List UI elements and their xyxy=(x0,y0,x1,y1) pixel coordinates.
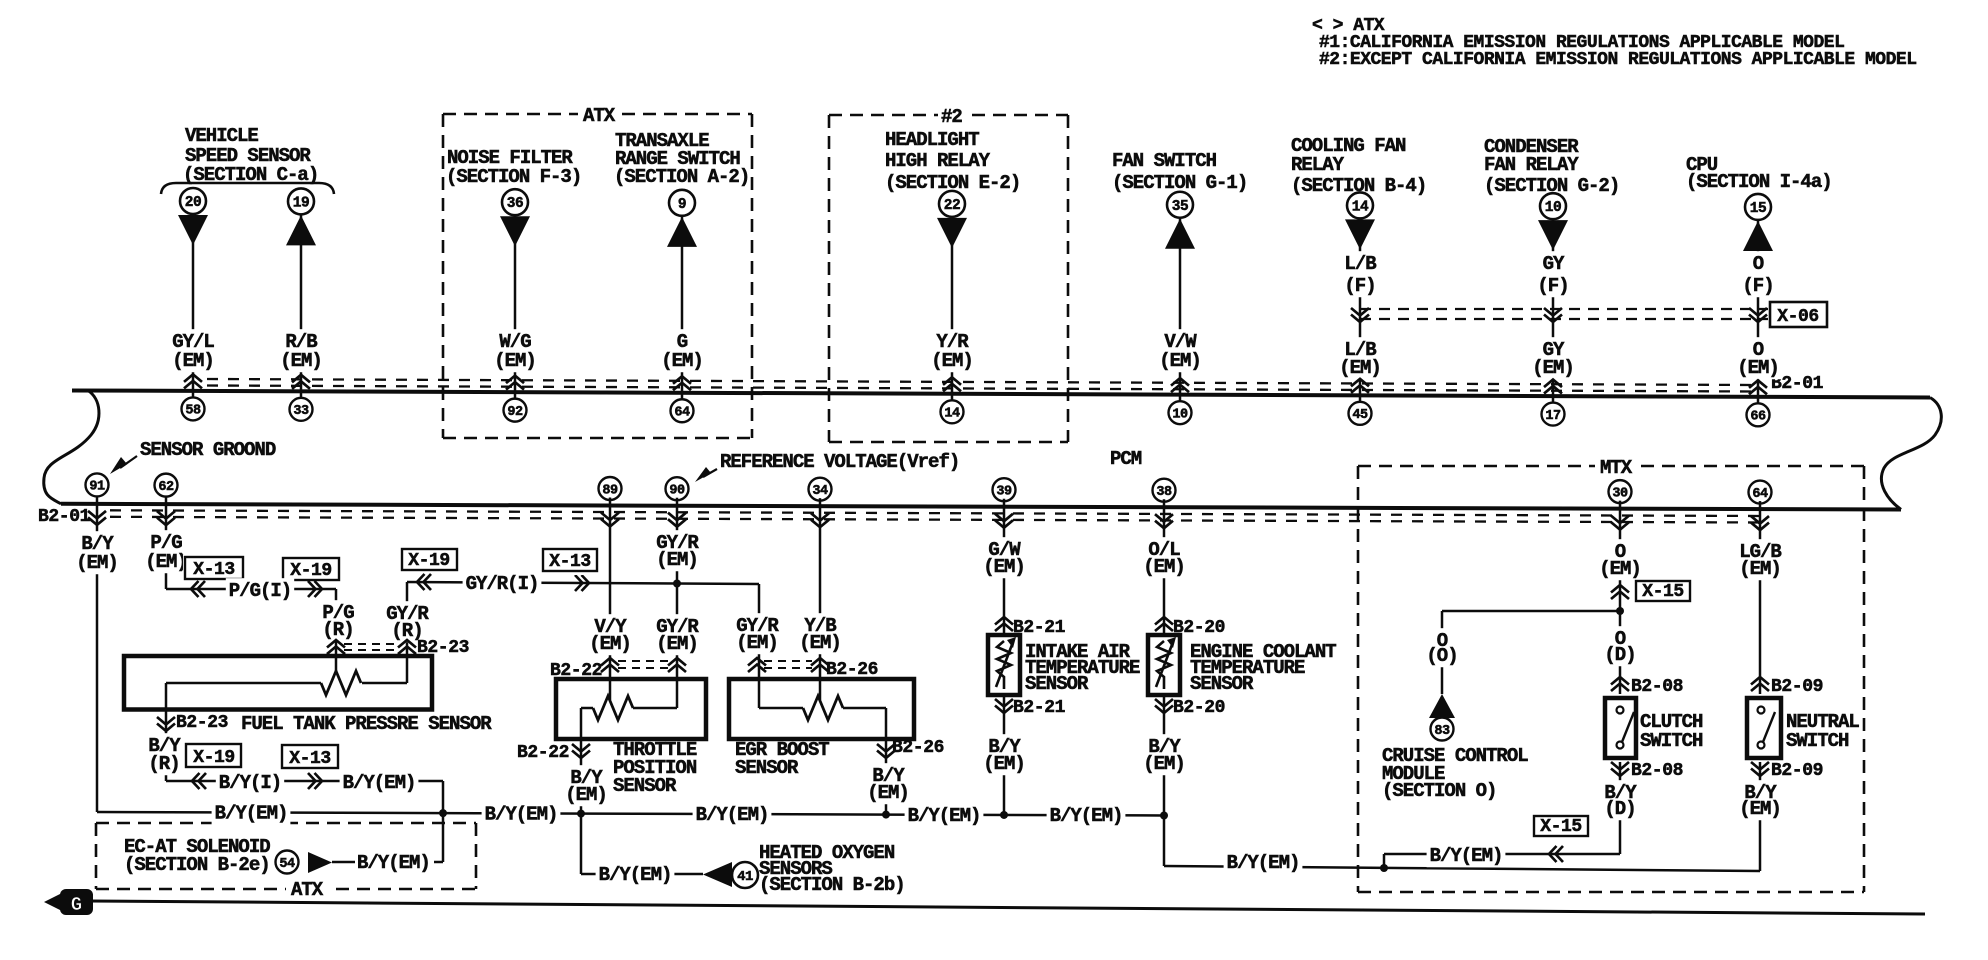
svg-text:#2:EXCEPT CALIFORNIA EMISSION: #2:EXCEPT CALIFORNIA EMISSION REGULATION… xyxy=(1319,50,1917,70)
svg-text:92: 92 xyxy=(507,405,523,420)
svg-text:(EM): (EM) xyxy=(983,753,1025,775)
svg-text:91: 91 xyxy=(89,480,105,495)
svg-text:ATX: ATX xyxy=(583,105,616,127)
svg-text:SENSOR: SENSOR xyxy=(613,775,677,797)
svg-text:(EM): (EM) xyxy=(1599,558,1641,580)
svg-text:B2-21: B2-21 xyxy=(1013,698,1066,718)
svg-text:HIGH RELAY: HIGH RELAY xyxy=(885,150,991,172)
svg-text:(EM): (EM) xyxy=(172,350,214,372)
svg-text:15: 15 xyxy=(1750,201,1766,217)
svg-text:GY: GY xyxy=(1543,253,1565,275)
svg-text:35: 35 xyxy=(1172,199,1188,215)
svg-text:(EM): (EM) xyxy=(145,551,187,573)
svg-text:MTX: MTX xyxy=(1600,457,1633,479)
svg-text:10: 10 xyxy=(1172,407,1188,422)
svg-text:X-13: X-13 xyxy=(549,552,591,572)
svg-text:ATX: ATX xyxy=(291,879,324,901)
svg-text:SENSOR GROOND: SENSOR GROOND xyxy=(140,439,276,461)
svg-text:X-13: X-13 xyxy=(193,560,235,580)
svg-text:17: 17 xyxy=(1545,409,1561,424)
svg-text:90: 90 xyxy=(669,484,685,499)
svg-text:B/Y(EM): B/Y(EM) xyxy=(1430,845,1503,867)
svg-text:(D): (D) xyxy=(1604,644,1635,666)
svg-text:(EM): (EM) xyxy=(867,782,909,804)
svg-text:X-13: X-13 xyxy=(289,749,331,769)
svg-text:G: G xyxy=(71,894,82,916)
svg-text:(EM): (EM) xyxy=(656,549,698,571)
svg-text:(EM): (EM) xyxy=(1143,556,1185,578)
svg-text:B2-09: B2-09 xyxy=(1771,761,1823,781)
svg-text:9: 9 xyxy=(678,197,686,213)
svg-text:SWITCH: SWITCH xyxy=(1640,730,1703,752)
svg-text:89: 89 xyxy=(602,483,618,498)
svg-text:(EM): (EM) xyxy=(76,552,118,574)
svg-text:58: 58 xyxy=(185,404,201,419)
svg-text:#2: #2 xyxy=(941,106,962,128)
svg-text:(F): (F) xyxy=(1537,275,1568,297)
svg-text:X-19: X-19 xyxy=(193,748,235,768)
svg-text:(O): (O) xyxy=(1426,645,1457,667)
svg-text:(F): (F) xyxy=(1742,275,1773,297)
svg-text:45: 45 xyxy=(1352,408,1368,423)
svg-text:B2-20: B2-20 xyxy=(1173,698,1225,718)
svg-text:39: 39 xyxy=(996,485,1012,500)
svg-text:X-15: X-15 xyxy=(1540,817,1582,837)
svg-text:(EM): (EM) xyxy=(494,350,536,372)
svg-text:(R): (R) xyxy=(322,619,353,641)
svg-text:(EM): (EM) xyxy=(1739,558,1781,580)
svg-text:(SECTION I-4a): (SECTION I-4a) xyxy=(1686,171,1832,193)
svg-text:B/Y(EM): B/Y(EM) xyxy=(343,772,416,794)
svg-text:B/Y(EM): B/Y(EM) xyxy=(1227,852,1300,874)
svg-text:62: 62 xyxy=(158,480,174,495)
svg-text:30: 30 xyxy=(1612,486,1628,501)
svg-text:L/B: L/B xyxy=(1344,253,1376,275)
svg-text:(F): (F) xyxy=(1344,275,1375,297)
svg-text:GY/R(I): GY/R(I) xyxy=(466,573,539,595)
svg-text:(EM): (EM) xyxy=(589,633,631,655)
svg-text:B/Y(EM): B/Y(EM) xyxy=(908,805,981,827)
svg-text:REFERENCE VOLTAGE(Vref): REFERENCE VOLTAGE(Vref) xyxy=(720,451,959,473)
svg-text:(EM): (EM) xyxy=(1339,357,1381,379)
svg-text:B2-22: B2-22 xyxy=(517,743,569,763)
svg-text:B2-01: B2-01 xyxy=(38,507,91,527)
svg-text:(EM): (EM) xyxy=(931,350,973,372)
svg-text:14: 14 xyxy=(944,407,960,422)
svg-text:(EM): (EM) xyxy=(565,784,607,806)
svg-text:FAN SWITCH: FAN SWITCH xyxy=(1112,150,1217,172)
svg-text:B2-08: B2-08 xyxy=(1631,761,1683,781)
svg-text:B/Y(EM): B/Y(EM) xyxy=(215,803,288,825)
svg-text:33: 33 xyxy=(293,404,309,419)
svg-text:22: 22 xyxy=(944,198,960,214)
svg-text:(EM): (EM) xyxy=(280,350,322,372)
svg-text:(SECTION O): (SECTION O) xyxy=(1382,780,1496,802)
svg-text:83: 83 xyxy=(1434,724,1450,739)
svg-text:19: 19 xyxy=(293,195,309,211)
svg-text:(EM): (EM) xyxy=(1143,753,1185,775)
svg-text:B/Y(I): B/Y(I) xyxy=(219,772,281,794)
svg-text:B/Y(EM): B/Y(EM) xyxy=(599,864,672,886)
svg-text:(SECTION F-3): (SECTION F-3) xyxy=(446,166,581,188)
svg-text:(EM): (EM) xyxy=(656,633,698,655)
svg-text:SWITCH: SWITCH xyxy=(1786,730,1849,752)
svg-text:14: 14 xyxy=(1352,199,1369,215)
svg-text:VEHICLE: VEHICLE xyxy=(185,125,258,147)
svg-text:B/Y(EM): B/Y(EM) xyxy=(696,804,769,826)
svg-text:(EM): (EM) xyxy=(1532,357,1574,379)
svg-text:(SECTION A-2): (SECTION A-2) xyxy=(614,166,749,188)
svg-text:38: 38 xyxy=(1156,485,1172,500)
svg-text:(SECTION B-2e): (SECTION B-2e) xyxy=(124,854,270,876)
svg-text:36: 36 xyxy=(507,196,523,212)
svg-text:P/G(I): P/G(I) xyxy=(229,580,291,602)
svg-text:SENSOR: SENSOR xyxy=(1190,673,1254,695)
svg-text:34: 34 xyxy=(812,484,828,499)
svg-text:41: 41 xyxy=(737,869,753,885)
svg-text:X-19: X-19 xyxy=(408,551,450,571)
svg-text:PCM: PCM xyxy=(1110,448,1142,470)
svg-text:(SECTION E-2): (SECTION E-2) xyxy=(885,172,1020,194)
svg-text:FAN RELAY: FAN RELAY xyxy=(1484,154,1579,176)
svg-text:(EM): (EM) xyxy=(1159,350,1201,372)
svg-text:64: 64 xyxy=(674,406,690,421)
svg-text:B2-26: B2-26 xyxy=(892,738,944,758)
svg-text:O: O xyxy=(1753,253,1764,275)
svg-text:SENSOR: SENSOR xyxy=(1025,673,1089,695)
svg-text:20: 20 xyxy=(185,195,201,211)
svg-text:SENSOR: SENSOR xyxy=(735,757,799,779)
svg-text:(R): (R) xyxy=(148,753,179,775)
svg-text:RELAY: RELAY xyxy=(1291,154,1345,176)
svg-text:X-06: X-06 xyxy=(1777,307,1819,327)
svg-text:B/Y(EM): B/Y(EM) xyxy=(357,852,430,874)
svg-text:HEADLIGHT: HEADLIGHT xyxy=(885,129,979,151)
svg-text:(EM): (EM) xyxy=(983,556,1025,578)
svg-text:X-15: X-15 xyxy=(1642,582,1684,602)
svg-text:64: 64 xyxy=(1752,487,1768,502)
svg-text:(D): (D) xyxy=(1604,798,1635,820)
svg-text:10: 10 xyxy=(1545,200,1561,216)
svg-text:B2-23: B2-23 xyxy=(176,713,228,733)
svg-text:(SECTION G-2): (SECTION G-2) xyxy=(1484,175,1619,197)
svg-text:66: 66 xyxy=(1750,410,1766,425)
svg-text:(EM): (EM) xyxy=(799,632,841,654)
svg-text:(EM): (EM) xyxy=(661,350,703,372)
svg-text:(EM): (EM) xyxy=(736,632,778,654)
svg-text:B/Y(EM): B/Y(EM) xyxy=(1050,805,1123,827)
svg-text:FUEL TANK PRESSRE SENSOR: FUEL TANK PRESSRE SENSOR xyxy=(241,713,492,735)
svg-text:54: 54 xyxy=(279,857,295,872)
svg-text:(SECTION B-2b): (SECTION B-2b) xyxy=(759,874,905,896)
svg-text:X-19: X-19 xyxy=(290,561,332,581)
svg-text:(SECTION B-4): (SECTION B-4) xyxy=(1291,175,1426,197)
svg-text:(SECTION G-1): (SECTION G-1) xyxy=(1112,172,1247,194)
svg-text:(EM): (EM) xyxy=(1739,798,1781,820)
svg-text:(EM): (EM) xyxy=(1737,357,1779,379)
svg-text:B/Y(EM): B/Y(EM) xyxy=(485,803,558,825)
